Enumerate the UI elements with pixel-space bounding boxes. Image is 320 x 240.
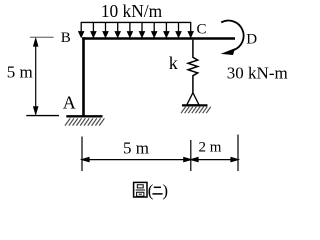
beam B-C-D: [82, 37, 235, 40]
caption glyph 二: [152, 187, 162, 194]
moment arrowhead: [221, 48, 235, 55]
left dimension top tick (gray): [30, 36, 54, 38]
svg-text:5 m: 5 m: [7, 62, 33, 81]
svg-text:D: D: [246, 32, 257, 48]
fixed support hatching at A: [65, 118, 104, 125]
svg-text:A: A: [63, 92, 76, 112]
bottom dimension line 2 m with arrows: [191, 158, 238, 162]
svg-text:): ): [162, 181, 168, 200]
left dimension bottom tick: [26, 115, 59, 117]
applied moment arc at D: [221, 21, 243, 51]
spring support ground line: [182, 104, 208, 106]
svg-text:(: (: [148, 181, 154, 200]
column A-B: [82, 37, 85, 116]
svg-text:5 m: 5 m: [123, 139, 149, 158]
distributed load top line: [81, 21, 191, 23]
svg-text:10 kN/m: 10 kN/m: [101, 1, 163, 21]
svg-text:C: C: [197, 21, 207, 37]
distributed load arrows: [79, 22, 193, 37]
svg-text:B: B: [61, 30, 71, 46]
svg-text:k: k: [169, 53, 178, 73]
left vertical dimension line with arrows: [34, 39, 38, 114]
bottom dimension extension line at C: [190, 140, 192, 171]
spring support hatching: [181, 107, 211, 113]
spring support triangle: [187, 93, 199, 105]
svg-text:2 m: 2 m: [199, 140, 222, 156]
fixed support ground line at A: [66, 115, 102, 117]
spring k: [188, 40, 198, 93]
caption glyph 圖: [134, 182, 147, 197]
bottom dimension line 5 m with arrows: [82, 158, 191, 162]
caption 圖(二): [134, 181, 168, 200]
bottom dimension extension line at A: [81, 137, 83, 172]
bottom dimension extension line at D: [237, 135, 239, 172]
svg-text:30 kN-m: 30 kN-m: [227, 63, 288, 82]
